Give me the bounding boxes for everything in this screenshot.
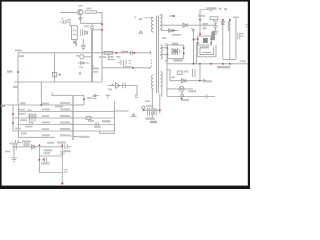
ground mark under winding — [165, 44, 168, 46]
capacitor on branch — [90, 23, 94, 30]
wire corner to divider — [167, 70, 170, 81]
junction dots top — [101, 23, 103, 31]
tiny text labels top-left — [67, 5, 92, 46]
transistor Q1 leads — [79, 10, 82, 15]
winding column x229.8 — [229, 19, 231, 59]
wire reference row — [167, 88, 193, 90]
junction dots on wires — [116, 52, 136, 69]
small triangle mark — [139, 31, 142, 33]
wire vertical filter left — [12, 105, 14, 131]
wire pin row 6 — [73, 136, 78, 138]
vertical stub with arrow — [75, 40, 77, 47]
join bottom — [223, 58, 236, 60]
wire top corner to pin 1 — [73, 96, 85, 106]
gate cluster — [118, 60, 126, 66]
resistor on row3 — [86, 117, 91, 120]
wire pin row 2 — [73, 111, 114, 113]
wire pin row 3 — [73, 117, 114, 119]
capacitor C42 plates — [60, 152, 65, 154]
wire mains row 5 — [13, 130, 73, 132]
cap cluster — [30, 114, 36, 122]
MAINS label — [1, 105, 5, 107]
wire mains row 4 — [19, 124, 74, 126]
100n label — [198, 15, 205, 17]
primary winding top (left) — [152, 18, 154, 32]
branch wire y29.8 — [92, 29, 102, 31]
wire rail to 5V — [199, 64, 201, 81]
capacitor C2 — [81, 30, 83, 36]
wire mains row 3 — [13, 117, 73, 119]
stub right of vertical — [114, 110, 128, 112]
marks below x92 — [93, 94, 99, 98]
label 829 above corner — [15, 50, 22, 52]
label under wire — [19, 55, 24, 57]
diode D5 on wire — [183, 23, 187, 27]
label F30 — [7, 71, 13, 73]
vertical x101.5 lower — [101, 53, 103, 82]
wire mains row 6 — [19, 136, 56, 138]
pin labels left column — [42, 97, 101, 144]
tall vertical with T top — [233, 17, 240, 59]
top-left cluster — [60, 18, 87, 50]
zener symbol — [131, 114, 137, 117]
value labels TL431 area — [171, 71, 212, 102]
labels near transformer — [170, 15, 181, 45]
wire bottom row — [39, 172, 62, 174]
diode D10 on 5V wire — [170, 79, 200, 83]
labels mid-left — [7, 50, 24, 88]
shunt regulator U5 TL431 — [179, 86, 184, 91]
wire standby output row — [12, 146, 62, 148]
capacitor C43 electrolytic — [65, 144, 71, 149]
main horizontal wire y52.8 — [18, 52, 151, 54]
cap on row4 — [96, 122, 98, 128]
wire mains row 1 — [5, 104, 73, 106]
wire stub to primary — [144, 17, 152, 19]
pin number ticks — [71, 104, 72, 137]
vertical to ground — [82, 39, 84, 47]
wire pin row 4 — [73, 124, 114, 126]
opto U2 box — [167, 43, 185, 62]
wire ground return — [167, 96, 215, 98]
cap stack — [214, 21, 218, 25]
diode column x222.8 — [222, 19, 224, 59]
secondary winding 3 (right low) — [161, 72, 163, 86]
arrow mark — [191, 28, 194, 31]
wire vertical filter right — [18, 105, 20, 137]
cluster K — [142, 94, 160, 116]
emitter drop wire — [79, 15, 81, 23]
center vertical and loop — [100, 101, 137, 133]
small marks right — [241, 25, 248, 36]
end tick of main wire — [150, 51, 152, 55]
small cap pair on wire — [131, 51, 133, 55]
zener symbol on return — [180, 91, 184, 96]
label under lower wire — [13, 86, 18, 88]
ground left — [11, 147, 17, 162]
wire vertical x39 — [38, 147, 40, 173]
zener X symbol — [73, 41, 77, 44]
capacitor C41 — [45, 157, 47, 161]
ground bars — [213, 31, 219, 34]
vertical x41.3 — [40, 82, 42, 105]
second wire y67.8 — [102, 67, 151, 69]
fusible resistor hatched bar — [85, 11, 97, 14]
diode D3 — [78, 62, 90, 65]
left vertical x18 — [17, 53, 19, 105]
secondary winding 2 (right mid) — [161, 45, 163, 59]
resistor box — [210, 17, 218, 20]
diode D2 — [85, 31, 88, 35]
wire y25.2 — [163, 24, 216, 26]
long secondary rail y63.8 — [167, 63, 248, 65]
capacitor C30 — [193, 69, 196, 77]
wire y30.5 with diode — [162, 29, 179, 33]
wire pin row 5 — [73, 130, 114, 132]
capacitor C40 — [14, 144, 16, 150]
x mark — [79, 73, 81, 75]
bottom cap pair — [16, 140, 22, 145]
vertical x200 — [199, 10, 201, 37]
capacitor marks right — [206, 95, 208, 98]
verticals to rail — [165, 31, 197, 64]
components on main wire y52.8 — [52, 51, 150, 98]
resistor R31 — [178, 71, 183, 75]
aux transformer cluster right — [198, 32, 216, 57]
faint marks — [134, 17, 136, 18]
winding dashes — [150, 60, 152, 68]
mosfet row y85.5 — [108, 83, 138, 96]
5V output arrow — [200, 79, 206, 82]
fuse component on x54.5 — [52, 72, 56, 76]
opto U3 box — [197, 36, 212, 49]
branch wire y23.3 — [80, 22, 102, 24]
diode D40 — [32, 145, 35, 149]
core lines — [156, 16, 158, 94]
ground bars — [81, 47, 86, 50]
winding loops below opto U3 — [198, 45, 216, 57]
wire cap to U1 — [70, 22, 72, 26]
wire AC live top — [60, 11, 78, 13]
wire vertical x62 — [61, 144, 63, 182]
primary taps — [152, 18, 154, 32]
T cap symbol above — [105, 95, 110, 98]
B+ label — [207, 7, 228, 10]
capacitor C1 electrolytic — [60, 20, 70, 24]
wire corner down at x102 — [97, 12, 103, 53]
resistor R zigzag — [104, 51, 113, 54]
thermistor TH1 — [78, 55, 95, 69]
junction dot on x18 — [17, 71, 19, 73]
wire mid row — [39, 155, 62, 157]
IC U1 box — [72, 26, 78, 40]
L-shape branch — [109, 54, 116, 60]
diode D1 triangle on emitter — [79, 18, 82, 20]
L corner net label — [136, 94, 138, 97]
fuse arrow mark — [139, 18, 142, 20]
wire feedback left rail — [166, 48, 168, 97]
labels center — [99, 56, 132, 90]
cap bars under wire — [203, 27, 207, 29]
inductor bumps — [122, 51, 128, 53]
secondary winding 1 (right top) — [160, 15, 162, 29]
vertical x54.5 — [54, 53, 56, 82]
wire pin row 1 — [73, 104, 84, 106]
small marks — [92, 66, 95, 69]
+ mark near winding top — [161, 15, 163, 17]
border frame — [0, 0, 250, 189]
aux winding lower (left) — [152, 75, 154, 89]
lower horizontal wire y82 — [14, 81, 102, 83]
thick bus vertical x92 — [91, 30, 93, 82]
capacitor C44 — [64, 170, 68, 172]
transistor Q1 body — [78, 10, 83, 15]
wire mains row 2 — [19, 111, 74, 113]
